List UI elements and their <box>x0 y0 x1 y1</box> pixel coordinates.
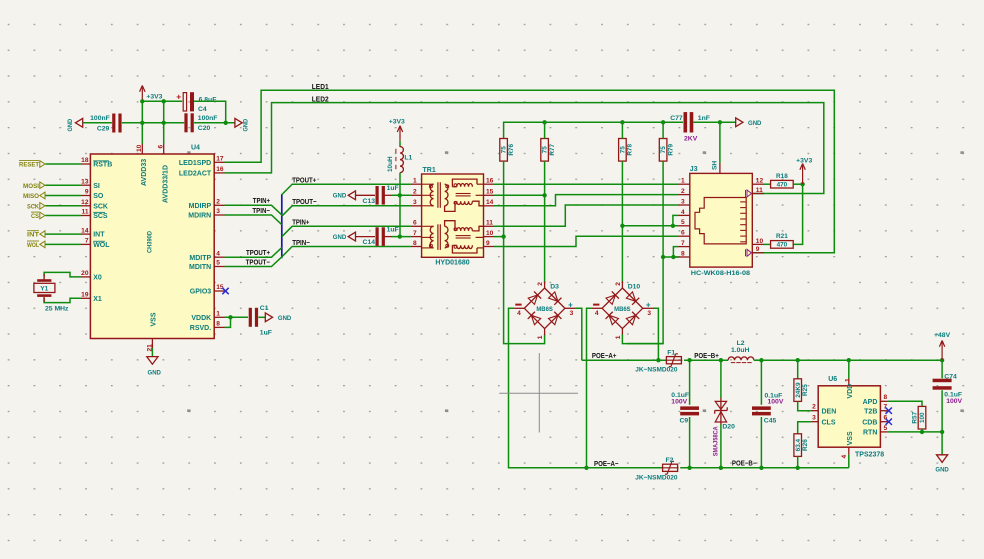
wire J3 pins4-5 row to R78 <box>622 225 673 227</box>
U4 pin 2 MDIRP <box>214 204 225 206</box>
TR1 pin 15 <box>484 194 495 196</box>
junction C45 top <box>759 358 763 362</box>
TR1 common mode choke <box>452 245 477 253</box>
svg-text:LED2ACT: LED2ACT <box>179 171 212 178</box>
svg-text:VDDK: VDDK <box>191 315 211 322</box>
junction RTN/C74 <box>940 430 944 434</box>
junction R57/RTN <box>920 430 924 434</box>
junction D20 bottom <box>719 466 723 470</box>
resistor R25 24K9 <box>794 379 802 402</box>
junction R18/+3V3 <box>800 182 804 186</box>
svg-text:13: 13 <box>81 178 89 185</box>
TR1 winding secondary <box>445 226 448 248</box>
svg-text:C14: C14 <box>363 239 376 246</box>
svg-text:Y1: Y1 <box>40 286 48 293</box>
J3 pin 12 <box>752 183 764 185</box>
capacitor C1 1uF <box>249 308 252 327</box>
svg-text:11: 11 <box>486 220 493 227</box>
wire D20 top <box>720 360 722 398</box>
junction R76/TR1 pin10 row <box>501 234 505 238</box>
wire TPIN- to TR1 pin8 with bus entry <box>282 247 411 257</box>
capacitor C9 0.1uF 100V <box>680 406 699 410</box>
svg-text:10: 10 <box>486 230 494 237</box>
svg-text:75: 75 <box>501 146 508 154</box>
svg-text:100V: 100V <box>946 398 962 405</box>
TVS diode D20 SMAJ58CA <box>720 398 722 425</box>
svg-text:25 MHz: 25 MHz <box>45 305 69 312</box>
U4 pin 7 WOL <box>81 243 91 245</box>
U6 pin 6 no-connect X <box>886 419 892 425</box>
svg-text:HC-WK08-H16-08: HC-WK08-H16-08 <box>691 270 751 277</box>
wire TR1 pin14 to J3 pin2 jog <box>494 195 678 206</box>
TR1 pin 2 <box>411 194 422 196</box>
svg-text:470: 470 <box>777 182 788 189</box>
svg-text:2KV: 2KV <box>684 135 698 142</box>
resistor R26 63.4 <box>794 434 802 457</box>
svg-text:2: 2 <box>681 188 685 195</box>
svg-text:16: 16 <box>486 178 494 185</box>
svg-text:U6: U6 <box>828 376 837 383</box>
ground symbol GND right of C77 <box>736 118 743 127</box>
wire TR1 pin16 to J3 pin1 <box>494 183 678 185</box>
junction J3 pin5 row <box>671 224 675 228</box>
resistor R76 75 <box>500 139 508 162</box>
svg-text:11: 11 <box>82 209 89 216</box>
svg-text:CH390D: CH390D <box>147 231 154 253</box>
wire L1 down to C13/C14 junctions <box>399 173 401 237</box>
svg-text:20: 20 <box>81 270 89 277</box>
TR1 core <box>437 224 439 250</box>
svg-text:2: 2 <box>537 282 544 286</box>
svg-text:WOL: WOL <box>93 242 110 249</box>
svg-text:1: 1 <box>681 178 685 185</box>
wire R18 to +3V3 <box>793 183 802 185</box>
svg-text:6: 6 <box>413 220 417 227</box>
svg-text:MB6S: MB6S <box>536 307 553 313</box>
svg-text:14: 14 <box>486 199 494 206</box>
svg-text:+3V3: +3V3 <box>389 118 405 125</box>
D10 pin 3 right <box>643 307 653 309</box>
wire D10 pin3 to POE-A+ junction <box>653 308 659 360</box>
global label MISO <box>40 192 45 199</box>
U4 pin 13 SI <box>81 184 91 186</box>
svg-text:F1: F1 <box>667 349 675 356</box>
junction R79/J3 pins7-8 row <box>661 255 665 259</box>
junction C4/C20/GND <box>224 121 228 125</box>
svg-text:JK−NSMD020: JK−NSMD020 <box>635 367 677 374</box>
svg-text:TPIN+: TPIN+ <box>292 218 309 227</box>
svg-text:19: 19 <box>81 292 89 299</box>
wire J3 pin12 to R18 <box>764 183 771 185</box>
svg-text:5: 5 <box>884 425 888 432</box>
svg-text:2: 2 <box>812 404 816 411</box>
ground symbol GND left of C29 <box>75 118 82 127</box>
svg-text:1: 1 <box>216 311 220 318</box>
svg-text:D3: D3 <box>550 284 559 291</box>
wire C4 right to GND rail <box>194 101 226 123</box>
svg-text:100V: 100V <box>768 399 784 406</box>
svg-text:INT: INT <box>93 232 105 239</box>
svg-text:14: 14 <box>81 227 89 234</box>
inductor L1 10uH <box>400 147 403 173</box>
wire F2 to U6 VSS <box>680 467 849 469</box>
svg-text:MDIRN: MDIRN <box>188 213 211 220</box>
svg-text:7: 7 <box>681 240 685 247</box>
svg-text:75: 75 <box>620 146 627 154</box>
wire D10 pin4 down to POE-A- junction <box>587 308 592 468</box>
diode bridge D3 MB6S body <box>524 288 565 329</box>
wire GND to C13 <box>356 194 376 196</box>
svg-text:R18: R18 <box>776 173 788 180</box>
wire VDDK pin1 to C1 <box>225 316 249 318</box>
svg-text:R79: R79 <box>667 143 674 155</box>
svg-text:GND: GND <box>935 467 948 474</box>
U4 pin 19 X1 <box>81 297 91 299</box>
wire POE-A+ rail <box>582 359 667 361</box>
J3 pin 11 <box>752 193 764 195</box>
wire R26 to U6 CLS <box>798 422 811 434</box>
U6 pin 2 DEN <box>811 410 818 412</box>
U4 pin 12 SCK <box>81 205 91 207</box>
wire D10 pin1 loop to R79 line <box>622 335 663 344</box>
TR1 pin 16 <box>484 183 495 185</box>
wire POE-A- rail to F2 <box>587 467 663 469</box>
svg-text:24K9: 24K9 <box>795 382 802 398</box>
svg-text:1: 1 <box>844 378 851 382</box>
wire X0 to crystal <box>44 272 81 277</box>
wire R57 bottom <box>921 429 923 432</box>
svg-text:POE−B+: POE−B+ <box>694 351 719 360</box>
J3 pin 3 <box>678 204 690 206</box>
svg-text:RSTB: RSTB <box>93 162 112 169</box>
wire termination rail <box>504 122 683 138</box>
J3 pin 7 <box>678 246 690 248</box>
svg-text:U4: U4 <box>191 145 200 152</box>
svg-text:SCS: SCS <box>93 213 108 220</box>
wire C1 to GND <box>258 316 265 318</box>
wire D20 bottom <box>720 424 722 467</box>
U6 pin 3 CLS <box>811 421 818 423</box>
svg-text:AVDD33/1D: AVDD33/1D <box>163 165 170 203</box>
capacitor C13 1uF <box>376 186 379 205</box>
J3 pin 9 <box>752 252 764 254</box>
global label SCK <box>40 203 45 210</box>
svg-text:C77: C77 <box>670 115 683 122</box>
wire J3 pin10 to R21 <box>764 243 771 245</box>
D3 pin 3 right <box>565 307 575 309</box>
U4 pin 15 GPIO3 <box>214 290 225 292</box>
junction L1/C14/TR1 pin7 <box>398 234 402 238</box>
wire D3 pin4 down to POE-A- rail <box>509 308 587 468</box>
svg-text:SO: SO <box>93 193 104 200</box>
U4 pin 15 GPIO3 no-connect X <box>222 288 228 294</box>
svg-text:WOL: WOL <box>27 242 39 249</box>
svg-text:R78: R78 <box>627 143 634 155</box>
J3 internal LED B indicator <box>747 249 752 256</box>
svg-text:GND: GND <box>278 315 291 322</box>
svg-text:SCK: SCK <box>27 203 39 210</box>
svg-text:10: 10 <box>756 238 764 245</box>
svg-text:R26: R26 <box>802 439 809 451</box>
J3 pin 8 <box>678 256 690 258</box>
svg-text:POE−A−: POE−A− <box>594 459 619 468</box>
U6 pin 7 no-connect X <box>886 408 892 414</box>
wire SH to GND rail <box>719 122 721 163</box>
wire D3 pin3 to POE-A+ rail <box>575 308 582 360</box>
junction D20 top <box>719 358 723 362</box>
svg-text:100: 100 <box>919 412 926 423</box>
svg-text:75: 75 <box>660 146 667 154</box>
wire C9 bottom <box>689 417 691 468</box>
power symbol +3V3 at R18 <box>802 164 804 185</box>
capacitor C45 0.1uF 100V <box>752 406 771 410</box>
wire INT to U4 <box>45 233 80 235</box>
svg-text:8: 8 <box>681 250 685 257</box>
svg-text:8: 8 <box>884 394 888 401</box>
U6 pin 4 VSS <box>848 447 850 455</box>
junction +48V/C74 <box>940 358 944 362</box>
J3 pin 6 <box>678 235 690 237</box>
junction R77 rail <box>542 120 546 124</box>
wire RESET to U4 <box>45 163 80 165</box>
svg-text:12: 12 <box>81 199 89 206</box>
svg-text:100V: 100V <box>671 398 687 405</box>
svg-text:SH: SH <box>711 161 718 170</box>
svg-text:9: 9 <box>85 189 89 196</box>
J3 pin 4 <box>678 214 690 216</box>
ground symbol GND bottom right <box>937 455 948 463</box>
wire R77 rail stub <box>544 122 546 138</box>
svg-text:C13: C13 <box>363 198 376 205</box>
U6 pin 7 T2B <box>880 410 888 412</box>
svg-text:CDB: CDB <box>862 419 877 426</box>
U4 pin 20 X0 <box>81 276 91 278</box>
svg-text:LED1: LED1 <box>312 82 329 91</box>
J3 pin 5 <box>678 225 690 227</box>
U4 pin 3 MDIRN <box>214 214 225 216</box>
resistor R77 75 <box>541 139 549 162</box>
wire AVDD33/1D vertical pin6 <box>163 101 165 144</box>
svg-text:C4: C4 <box>198 106 207 113</box>
svg-text:75: 75 <box>542 146 549 154</box>
diode bridge D10 MB6S body <box>602 288 643 329</box>
TR1 pin 9 <box>484 246 495 248</box>
power symbol +48V <box>941 341 943 361</box>
wire WOL to U4 <box>45 243 80 245</box>
wire TR1 pin9 to J3 pin6 jog <box>494 236 678 246</box>
fuse F1 JK-NSMD020 <box>666 357 681 364</box>
D10 pin 1 bottom <box>621 329 623 336</box>
global label MOSI <box>40 182 45 189</box>
svg-text:+3V3: +3V3 <box>796 157 812 164</box>
svg-text:TPOUT−: TPOUT− <box>246 257 270 266</box>
wire TPIN+ to TR1 pin6 with bus entry <box>282 226 411 236</box>
wire C45 top <box>760 360 762 405</box>
wire TPIN+ from pin2 with bus entry <box>225 205 282 215</box>
U4 pin 18 RSTB <box>81 163 91 165</box>
svg-text:100nF: 100nF <box>90 115 110 122</box>
wire TPOUT- to TR1 pin3 with bus entry <box>282 206 411 216</box>
svg-text:F2: F2 <box>666 457 674 464</box>
svg-text:VSS: VSS <box>847 431 854 445</box>
wire GND to C29 <box>83 122 112 124</box>
D3 pin 2 top <box>544 281 546 288</box>
svg-text:C9: C9 <box>680 417 689 424</box>
wire R76 down to D3 pin1 <box>504 161 545 344</box>
svg-text:SCK: SCK <box>93 203 108 210</box>
U4 pin 17 LED1SPD <box>214 161 225 163</box>
svg-text:1uF: 1uF <box>260 329 272 336</box>
D10 pin 4 left <box>592 307 602 309</box>
TR1 winding primary <box>422 225 434 227</box>
wire R25 top <box>797 360 799 379</box>
ground symbol GND right of C20 <box>235 118 242 127</box>
U4 pin 11 SCS <box>81 215 91 217</box>
bus vertical segment <box>281 194 283 258</box>
svg-text:RTN: RTN <box>863 430 877 437</box>
U4 pin 1 VDDK <box>214 316 225 318</box>
svg-text:63.4: 63.4 <box>795 438 802 451</box>
svg-text:GND: GND <box>67 119 74 132</box>
wire TR1 pin10 to R76 <box>494 236 504 238</box>
wire VDD to rail <box>848 360 850 378</box>
junction J3 pin8 row <box>671 255 675 259</box>
connector J3 RJ45 HC-WK08-H16-08 body <box>690 173 753 267</box>
global label CS <box>40 212 45 219</box>
svg-text:1uF: 1uF <box>387 226 399 233</box>
capacitor C20 100nF <box>184 113 187 132</box>
wire R26 bottom <box>797 456 799 467</box>
wire R79 rail stub <box>662 122 664 138</box>
wire J3 pins 4-5 jumper <box>673 215 678 225</box>
IC U4 CH390D body <box>90 154 214 339</box>
wire C77 to GND <box>693 121 735 123</box>
svg-text:470: 470 <box>777 242 788 249</box>
svg-text:100nF: 100nF <box>198 115 218 122</box>
U4 pin 16 LED2ACT <box>214 172 225 174</box>
svg-text:L1: L1 <box>404 154 412 161</box>
svg-text:TPOUT+: TPOUT+ <box>292 176 316 185</box>
svg-text:VSS: VSS <box>150 312 157 326</box>
U4 pin 4 MDITP <box>214 256 225 258</box>
svg-text:POE−A+: POE−A+ <box>592 351 617 360</box>
junction R79 rail <box>661 120 665 124</box>
TR1 pin 1 <box>411 183 422 185</box>
wire C20 to GND arrow <box>194 122 235 124</box>
junction U6 VDD <box>847 358 851 362</box>
svg-text:C1: C1 <box>260 305 269 312</box>
svg-text:C29: C29 <box>97 126 110 133</box>
ground symbol GND at C1 <box>265 313 272 322</box>
svg-text:R57: R57 <box>912 411 919 423</box>
global label INT <box>40 231 45 238</box>
svg-text:4: 4 <box>517 310 521 317</box>
J3 jack pictogram <box>695 198 746 244</box>
TR1 pin 8 <box>411 246 422 248</box>
D3 pin 4 left <box>514 307 524 309</box>
junction +3V3/pin6 <box>162 99 166 103</box>
svg-text:D20: D20 <box>722 424 735 431</box>
wire TR1 pin15 to R77 <box>494 194 545 196</box>
wire J3 pin8 row to R79 <box>663 256 678 258</box>
svg-text:VDD: VDD <box>847 384 854 399</box>
svg-text:C20: C20 <box>198 125 211 132</box>
svg-text:TPIN−: TPIN− <box>252 206 270 215</box>
U4 bottom pin 21 VSS <box>151 339 153 349</box>
svg-text:6: 6 <box>681 230 685 237</box>
svg-text:6.8uF: 6.8uF <box>199 97 217 104</box>
J3 shield pin SH <box>719 163 721 174</box>
svg-text:1nF: 1nF <box>698 115 710 122</box>
svg-text:5: 5 <box>681 219 685 226</box>
inductor L2 1.0uH <box>728 357 754 360</box>
capacitor C29 100nF <box>112 114 115 133</box>
svg-text:MB6S: MB6S <box>614 307 631 313</box>
svg-text:R77: R77 <box>549 143 556 155</box>
svg-text:LED1SPD: LED1SPD <box>179 160 211 167</box>
wire MOSI to U4 <box>45 184 80 186</box>
svg-text:J3: J3 <box>690 166 698 173</box>
svg-text:RESET: RESET <box>19 162 39 169</box>
svg-text:2: 2 <box>413 189 417 196</box>
wire J3 pins 7-8 jumper <box>673 247 678 257</box>
J3 pin 2 <box>678 194 690 196</box>
TR1 winding secondary <box>445 184 448 206</box>
power symbol +3V3 above L1 <box>399 126 401 141</box>
svg-text:APD: APD <box>863 399 878 406</box>
svg-text:GND: GND <box>333 234 346 241</box>
svg-text:TPS2378: TPS2378 <box>855 451 884 458</box>
svg-text:3: 3 <box>647 310 651 317</box>
svg-text:18: 18 <box>81 157 89 164</box>
svg-text:+48V: +48V <box>934 332 951 339</box>
wire R77 down to D3 pin2 <box>544 161 546 283</box>
IC U6 TPS2378 body <box>818 386 880 447</box>
wire VSS to ground <box>151 348 153 356</box>
wire R25 to U6 DEN <box>798 401 811 410</box>
junction C9 bottom <box>687 466 691 470</box>
D10 pin 2 top <box>621 281 623 288</box>
global label RESET <box>40 161 45 168</box>
U4 pin 9 SO <box>81 195 91 197</box>
U6 pin 6 CDB <box>880 421 888 423</box>
svg-text:+: + <box>646 301 651 310</box>
svg-text:GND: GND <box>748 120 761 127</box>
svg-text:3: 3 <box>216 208 220 215</box>
svg-text:4: 4 <box>595 310 599 317</box>
svg-text:GND: GND <box>243 119 250 132</box>
svg-text:TPOUT+: TPOUT+ <box>246 248 270 257</box>
svg-text:X0: X0 <box>93 275 102 282</box>
ground symbol GND at VSS <box>147 357 158 365</box>
wire R78 down to D10 pin2 <box>621 161 623 283</box>
svg-text:17: 17 <box>216 156 224 163</box>
svg-text:9: 9 <box>756 246 760 253</box>
svg-text:10uH: 10uH <box>387 156 394 172</box>
svg-text:GPIO3: GPIO3 <box>190 289 212 296</box>
junction POE-A+/D10 <box>656 358 660 362</box>
svg-text:JK−NSMD020: JK−NSMD020 <box>635 474 677 481</box>
TR1 pin 10 <box>484 236 495 238</box>
svg-text:CLS: CLS <box>822 419 836 426</box>
wire AVDD33 vertical pin10 <box>141 101 143 144</box>
wire R79 down to D10 pin1 <box>627 161 663 344</box>
wire TPOUT+ from pin4 with bus entry <box>225 248 282 258</box>
U4 top pin 6 AVDD33/1D <box>163 144 165 154</box>
TR1 pin 6 <box>411 225 422 227</box>
fuse F2 JK-NSMD020 <box>663 464 678 471</box>
svg-text:+: + <box>176 92 181 102</box>
